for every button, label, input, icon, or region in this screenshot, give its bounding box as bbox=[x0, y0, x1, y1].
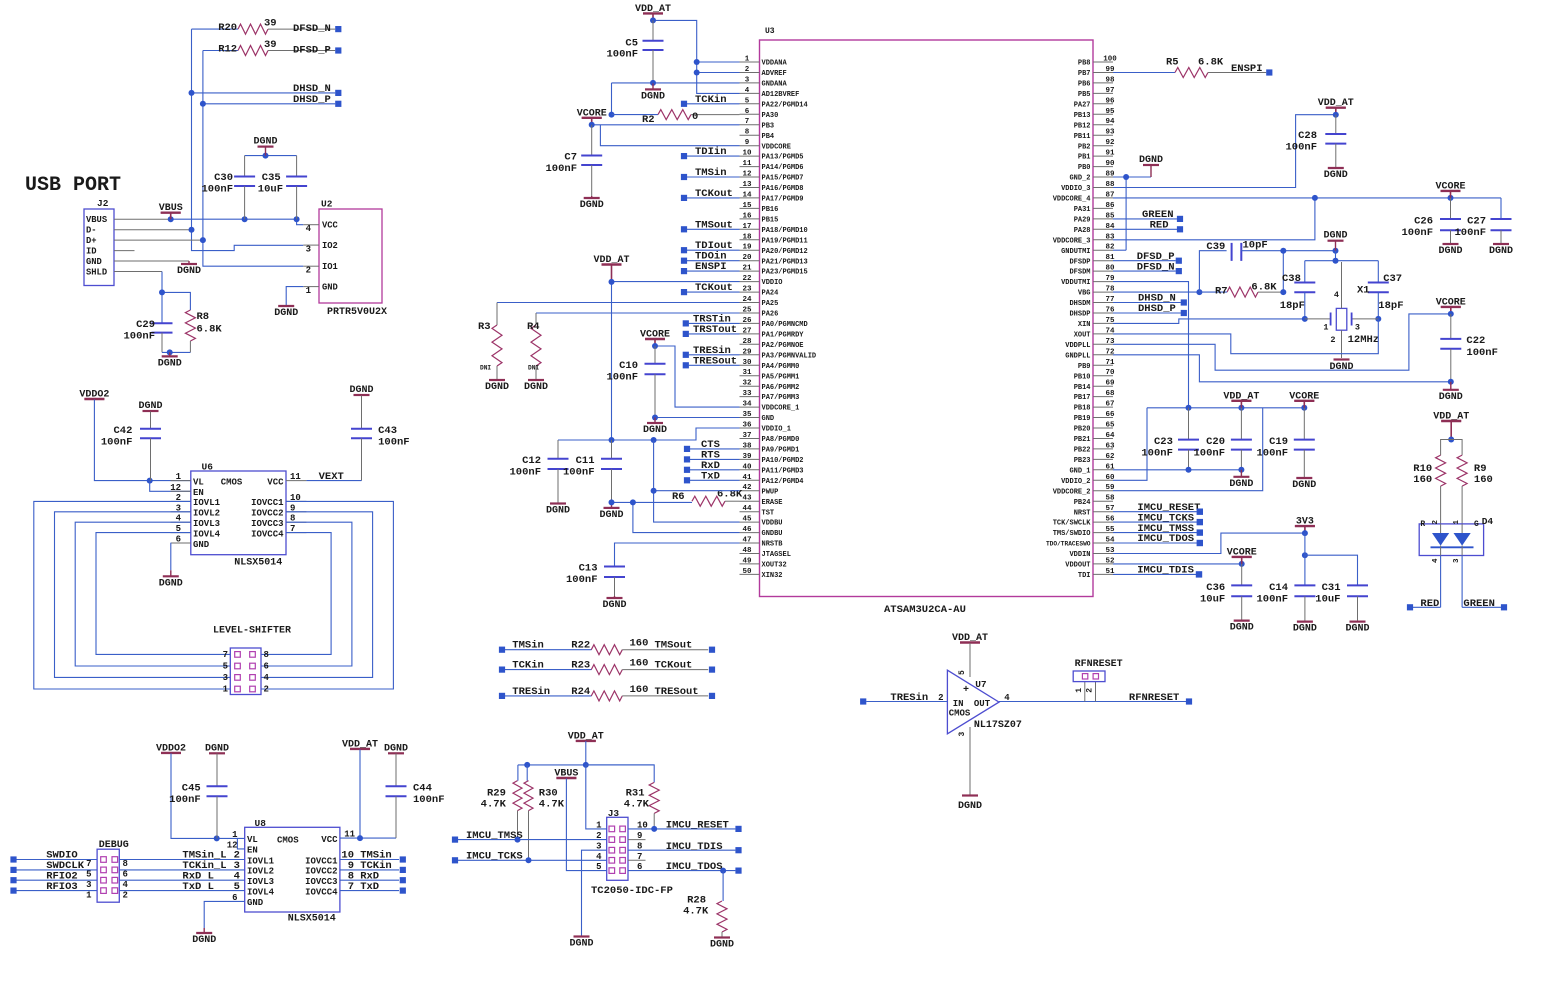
svg-text:TDIin: TDIin bbox=[695, 146, 727, 158]
svg-text:4: 4 bbox=[745, 87, 750, 95]
svg-text:PA11/PGMD3: PA11/PGMD3 bbox=[762, 467, 804, 475]
svg-text:25: 25 bbox=[742, 307, 752, 315]
svg-text:PB15: PB15 bbox=[762, 217, 779, 225]
svg-text:5: 5 bbox=[958, 670, 967, 675]
wire bbox=[612, 502, 740, 532]
svg-text:160: 160 bbox=[630, 658, 649, 670]
svg-text:41: 41 bbox=[742, 474, 752, 482]
svg-text:AD12BVREF: AD12BVREF bbox=[762, 91, 800, 99]
pin 12 PA15/PGMD7 bbox=[740, 171, 804, 183]
wire bbox=[114, 219, 303, 225]
wire bbox=[204, 901, 245, 928]
node TCKin bbox=[340, 860, 406, 873]
svg-text:DFSDP: DFSDP bbox=[1069, 258, 1090, 266]
svg-text:PB7: PB7 bbox=[1078, 70, 1091, 78]
svg-text:20: 20 bbox=[742, 254, 752, 262]
svg-text:VCORE: VCORE bbox=[1435, 181, 1465, 192]
svg-text:PA22/PGMD14: PA22/PGMD14 bbox=[762, 101, 808, 109]
ground DGND bbox=[546, 503, 570, 517]
pin 56 TCK/SWCLK bbox=[1053, 516, 1115, 528]
svg-text:PA5/PGMM1: PA5/PGMM1 bbox=[762, 373, 800, 381]
svg-text:PB16: PB16 bbox=[762, 206, 779, 214]
ground DGND bbox=[524, 379, 548, 393]
svg-text:100nF: 100nF bbox=[101, 437, 133, 449]
wire bbox=[1113, 355, 1451, 382]
svg-text:4.7K: 4.7K bbox=[539, 799, 565, 811]
wire bbox=[612, 82, 740, 84]
svg-text:3: 3 bbox=[596, 842, 601, 852]
pin 1 VDDANA bbox=[740, 56, 788, 68]
wire bbox=[566, 779, 606, 871]
pin 28 PA2/PGMNOE bbox=[740, 338, 804, 350]
svg-text:GND_1: GND_1 bbox=[1069, 467, 1090, 475]
svg-text:PB18: PB18 bbox=[1074, 405, 1091, 413]
ground DGND bbox=[1489, 243, 1513, 257]
svg-text:VDD_AT: VDD_AT bbox=[593, 255, 629, 266]
svg-text:48: 48 bbox=[742, 547, 752, 555]
svg-text:U7: U7 bbox=[975, 679, 987, 690]
svg-text:37: 37 bbox=[742, 432, 751, 440]
svg-text:DGND: DGND bbox=[1439, 392, 1463, 403]
ground DGND bbox=[641, 83, 665, 102]
svg-text:100nF: 100nF bbox=[563, 467, 595, 479]
capacitor C7 bbox=[545, 125, 602, 196]
svg-text:PA20/PGMD12: PA20/PGMD12 bbox=[762, 248, 808, 256]
svg-text:DGND: DGND bbox=[602, 600, 626, 611]
svg-text:64: 64 bbox=[1105, 432, 1115, 440]
power VDD_AT bbox=[568, 731, 604, 742]
ground DGND bbox=[1345, 621, 1369, 635]
svg-text:R2: R2 bbox=[642, 114, 655, 126]
pin 36 VDDIO_1 bbox=[740, 422, 791, 434]
crystal X1 12MHz bbox=[1305, 262, 1379, 358]
junction bbox=[1302, 530, 1308, 558]
junction bbox=[652, 415, 658, 421]
svg-text:VDDIO_1: VDDIO_1 bbox=[762, 426, 791, 434]
wire bbox=[518, 741, 654, 765]
svg-text:PA14/PGMD6: PA14/PGMD6 bbox=[762, 164, 804, 172]
ground DGND bbox=[159, 570, 183, 589]
svg-text:IMCU_TDIS: IMCU_TDIS bbox=[1137, 565, 1194, 577]
svg-text:IOVCC2: IOVCC2 bbox=[305, 867, 337, 877]
pin 10 PA13/PGMD5 bbox=[740, 150, 804, 162]
svg-text:VCC: VCC bbox=[321, 835, 338, 845]
junction bbox=[1280, 248, 1338, 295]
svg-text:VDDANA: VDDANA bbox=[762, 60, 788, 68]
wire bbox=[1113, 177, 1151, 250]
pin 59 VDDCORE_2 bbox=[1053, 484, 1115, 496]
junction bbox=[1448, 379, 1454, 385]
svg-text:5: 5 bbox=[234, 881, 240, 893]
ground DGND bbox=[1439, 382, 1463, 403]
svg-text:TST: TST bbox=[762, 509, 775, 517]
svg-text:93: 93 bbox=[1105, 129, 1115, 137]
svg-text:U8: U8 bbox=[255, 818, 267, 829]
svg-text:IMCU_TMSS: IMCU_TMSS bbox=[466, 830, 523, 842]
svg-text:PB24: PB24 bbox=[1074, 499, 1091, 507]
junction bbox=[357, 835, 363, 841]
label USB PORT bbox=[25, 174, 121, 197]
svg-text:VL: VL bbox=[247, 835, 258, 845]
pin 52 VDDOUT bbox=[1065, 557, 1115, 569]
ground DGND bbox=[1329, 360, 1353, 374]
svg-text:SHLD: SHLD bbox=[86, 268, 107, 278]
svg-text:100nF: 100nF bbox=[1454, 227, 1486, 239]
ground DGND bbox=[485, 379, 509, 393]
svg-text:38: 38 bbox=[742, 442, 752, 450]
svg-text:4.7K: 4.7K bbox=[481, 799, 507, 811]
svg-text:C22: C22 bbox=[1466, 335, 1485, 347]
pin 82 GNDUTMI bbox=[1061, 244, 1115, 256]
svg-text:96: 96 bbox=[1105, 97, 1115, 105]
wire bbox=[558, 428, 740, 440]
svg-text:PA24: PA24 bbox=[762, 290, 779, 298]
svg-text:PB21: PB21 bbox=[1074, 436, 1091, 444]
svg-text:11: 11 bbox=[290, 472, 301, 482]
svg-text:PA0/PGMNCMD: PA0/PGMNCMD bbox=[762, 321, 808, 329]
svg-text:PA4/PGMM0: PA4/PGMM0 bbox=[762, 363, 800, 371]
junction bbox=[1186, 467, 1245, 473]
svg-text:VCORE: VCORE bbox=[1289, 391, 1319, 402]
svg-text:68: 68 bbox=[1105, 390, 1115, 398]
svg-text:PB4: PB4 bbox=[762, 133, 775, 141]
svg-text:DGND: DGND bbox=[569, 939, 593, 950]
svg-text:DNI: DNI bbox=[480, 365, 491, 372]
pin 15 PB16 bbox=[740, 202, 779, 214]
svg-text:XOUT32: XOUT32 bbox=[762, 562, 787, 570]
svg-text:46: 46 bbox=[742, 526, 752, 534]
svg-text:VDD_AT: VDD_AT bbox=[568, 731, 604, 742]
svg-text:97: 97 bbox=[1105, 87, 1114, 95]
svg-text:IOVCC4: IOVCC4 bbox=[305, 887, 338, 897]
svg-text:DGND: DGND bbox=[1229, 479, 1253, 490]
svg-text:C37: C37 bbox=[1383, 273, 1402, 285]
svg-text:6: 6 bbox=[176, 535, 181, 545]
pin 89 GND_2 bbox=[1069, 171, 1115, 183]
svg-text:R12: R12 bbox=[218, 43, 237, 55]
pin 20 PA21/PGMD13 bbox=[740, 254, 808, 266]
svg-text:160: 160 bbox=[630, 684, 649, 696]
svg-text:PA15/PGMD7: PA15/PGMD7 bbox=[762, 175, 804, 183]
svg-text:TRSTout: TRSTout bbox=[693, 324, 737, 336]
svg-text:C30: C30 bbox=[214, 172, 233, 184]
svg-text:U6: U6 bbox=[202, 462, 214, 473]
svg-text:1: 1 bbox=[86, 890, 92, 900]
capacitor C19 bbox=[1256, 408, 1314, 477]
ground DGND bbox=[958, 796, 982, 813]
capacitor C11 bbox=[563, 440, 622, 508]
svg-text:J3: J3 bbox=[608, 808, 620, 819]
svg-text:4: 4 bbox=[264, 673, 270, 683]
wire bbox=[582, 850, 607, 935]
svg-text:D-: D- bbox=[86, 226, 97, 236]
svg-text:10uF: 10uF bbox=[1200, 594, 1225, 606]
svg-text:5: 5 bbox=[745, 97, 750, 105]
svg-text:100: 100 bbox=[1103, 56, 1117, 64]
svg-text:C35: C35 bbox=[262, 172, 281, 184]
pin 47 NRSTB bbox=[740, 537, 784, 549]
ground DGND bbox=[205, 743, 229, 754]
wire bbox=[114, 230, 303, 251]
svg-text:49: 49 bbox=[742, 557, 752, 565]
svg-text:RED: RED bbox=[1420, 598, 1439, 610]
svg-text:33: 33 bbox=[742, 390, 752, 398]
svg-text:VDDIN: VDDIN bbox=[1069, 551, 1090, 559]
svg-text:100nF: 100nF bbox=[566, 574, 598, 586]
label TxD_L bbox=[182, 881, 240, 893]
svg-text:100nF: 100nF bbox=[1285, 142, 1317, 154]
pin 19 PA20/PGMD12 bbox=[740, 244, 808, 256]
wire bbox=[611, 83, 613, 115]
pin 55 TMS/SWDIO bbox=[1053, 526, 1115, 538]
svg-text:3: 3 bbox=[745, 76, 750, 84]
connector LEVEL-SHIFTER bbox=[213, 626, 291, 695]
svg-text:IO1: IO1 bbox=[322, 262, 338, 272]
svg-text:17: 17 bbox=[742, 223, 751, 231]
pin 85 PA29 bbox=[1074, 212, 1115, 224]
svg-text:26: 26 bbox=[742, 317, 752, 325]
svg-text:8: 8 bbox=[264, 650, 269, 660]
svg-text:PB22: PB22 bbox=[1074, 447, 1091, 455]
svg-text:IOVL3: IOVL3 bbox=[193, 519, 220, 529]
node RED bbox=[1407, 598, 1441, 610]
svg-text:C7: C7 bbox=[564, 152, 577, 164]
junction bbox=[526, 857, 532, 863]
svg-text:100nF: 100nF bbox=[413, 794, 445, 806]
svg-text:EN: EN bbox=[247, 846, 258, 856]
pin 33 PA7/PGMM3 bbox=[740, 390, 800, 402]
svg-text:JTAGSEL: JTAGSEL bbox=[762, 551, 791, 559]
svg-text:6.8K: 6.8K bbox=[1251, 282, 1277, 294]
svg-text:VBUS: VBUS bbox=[554, 769, 578, 780]
wire bbox=[1113, 319, 1378, 354]
ground DGND bbox=[1323, 231, 1347, 251]
pin 8 PB4 bbox=[740, 129, 775, 141]
svg-text:45: 45 bbox=[742, 516, 752, 524]
svg-text:160: 160 bbox=[1413, 474, 1432, 486]
pin 42 PWUP bbox=[740, 484, 779, 496]
svg-text:IOVL2: IOVL2 bbox=[193, 509, 220, 519]
svg-text:39: 39 bbox=[742, 453, 752, 461]
resistor R31 bbox=[586, 765, 659, 829]
pin 18 PA19/PGMD11 bbox=[740, 233, 808, 245]
svg-text:IMCU_TDIS: IMCU_TDIS bbox=[666, 841, 723, 853]
junction bbox=[720, 868, 726, 874]
pin 23 PA24 bbox=[740, 286, 779, 298]
pin 54 TDO/TRACESWO bbox=[1046, 537, 1115, 548]
svg-text:CMOS: CMOS bbox=[221, 478, 243, 488]
svg-text:IOVL3: IOVL3 bbox=[247, 877, 274, 887]
svg-text:C29: C29 bbox=[136, 319, 155, 331]
node IMCU_TDOS bbox=[1113, 533, 1203, 546]
svg-text:IMCU_TCKS: IMCU_TCKS bbox=[466, 851, 523, 863]
svg-text:6.8K: 6.8K bbox=[1198, 57, 1224, 69]
wire bbox=[114, 272, 190, 324]
svg-text:VCORE: VCORE bbox=[1436, 297, 1466, 308]
svg-text:VDD_AT: VDD_AT bbox=[1433, 412, 1469, 423]
svg-text:DGND: DGND bbox=[1323, 231, 1347, 242]
wire bbox=[536, 312, 740, 314]
ground DGND bbox=[1229, 470, 1253, 490]
svg-text:R24: R24 bbox=[571, 686, 590, 698]
svg-text:66: 66 bbox=[1105, 411, 1115, 419]
svg-text:3V3: 3V3 bbox=[1296, 517, 1314, 528]
resistor R12 bbox=[218, 39, 335, 56]
svg-text:100nF: 100nF bbox=[606, 372, 638, 384]
svg-text:GND: GND bbox=[86, 257, 102, 267]
node TCKout bbox=[655, 660, 716, 673]
pin 99 PB7 bbox=[1078, 66, 1115, 78]
node SWDIO bbox=[10, 850, 244, 863]
node TMSout bbox=[681, 219, 740, 232]
svg-text:IOVCC2: IOVCC2 bbox=[251, 509, 283, 519]
pin 25 PA26 bbox=[740, 307, 779, 319]
svg-text:IOVL1: IOVL1 bbox=[247, 856, 275, 866]
svg-text:IOVCC3: IOVCC3 bbox=[251, 519, 283, 529]
wire bbox=[600, 125, 739, 146]
svg-text:PRTR5V0U2X: PRTR5V0U2X bbox=[327, 307, 387, 318]
svg-text:2: 2 bbox=[123, 890, 128, 900]
svg-text:C38: C38 bbox=[1282, 273, 1301, 285]
power VDD_AT bbox=[1433, 412, 1469, 440]
svg-text:VL: VL bbox=[193, 477, 204, 487]
svg-text:VCORE: VCORE bbox=[640, 330, 670, 341]
node DHSD_N bbox=[1113, 293, 1187, 306]
svg-text:DGND: DGND bbox=[1230, 623, 1254, 634]
svg-text:3: 3 bbox=[1355, 323, 1360, 333]
wire bbox=[286, 287, 303, 305]
svg-text:PB5: PB5 bbox=[1078, 91, 1091, 99]
svg-text:2: 2 bbox=[1432, 520, 1440, 525]
svg-text:DGND: DGND bbox=[580, 200, 604, 211]
svg-text:9: 9 bbox=[745, 139, 750, 147]
capacitor C35 bbox=[258, 156, 307, 220]
svg-text:D4: D4 bbox=[1482, 516, 1494, 527]
pin 72 GNDPLL bbox=[1065, 348, 1115, 360]
node TCKin bbox=[681, 94, 740, 107]
ground DGND bbox=[1324, 167, 1348, 181]
svg-text:39: 39 bbox=[264, 39, 277, 51]
svg-text:TMSin: TMSin bbox=[695, 167, 727, 179]
pin 78 VBG bbox=[1078, 286, 1115, 298]
svg-text:PA25: PA25 bbox=[762, 300, 779, 308]
svg-text:DGND: DGND bbox=[159, 578, 183, 589]
svg-text:VDD_AT: VDD_AT bbox=[635, 4, 671, 15]
svg-text:IOVL1: IOVL1 bbox=[193, 498, 221, 508]
svg-text:C26: C26 bbox=[1414, 216, 1433, 228]
svg-text:14: 14 bbox=[742, 191, 752, 199]
svg-text:C20: C20 bbox=[1206, 436, 1225, 448]
svg-text:DGND: DGND bbox=[205, 743, 229, 754]
junction bbox=[167, 349, 173, 355]
svg-text:+: + bbox=[963, 685, 969, 696]
svg-text:VBG: VBG bbox=[1078, 290, 1091, 298]
node RFIO2 bbox=[10, 870, 244, 883]
label TMSin_L bbox=[182, 850, 240, 862]
svg-text:C11: C11 bbox=[576, 455, 595, 467]
svg-text:TDO/TRACESWO: TDO/TRACESWO bbox=[1046, 541, 1091, 548]
node TDIin bbox=[681, 146, 740, 159]
wire bbox=[615, 543, 740, 567]
capacitor C23 bbox=[1141, 408, 1199, 470]
pin 98 PB6 bbox=[1078, 76, 1115, 88]
pin 94 PB12 bbox=[1074, 118, 1115, 130]
svg-text:12: 12 bbox=[742, 171, 752, 179]
pin 14 PA17/PGMD9 bbox=[740, 191, 804, 203]
pin 24 PA25 bbox=[740, 296, 779, 308]
pin 68 PB17 bbox=[1074, 390, 1115, 402]
svg-text:13: 13 bbox=[742, 181, 752, 189]
svg-text:C36: C36 bbox=[1206, 582, 1225, 594]
wire bbox=[1305, 251, 1379, 261]
capacitor C26 bbox=[1401, 198, 1461, 243]
svg-text:3: 3 bbox=[1453, 558, 1461, 563]
svg-text:160: 160 bbox=[630, 638, 649, 650]
svg-text:100nF: 100nF bbox=[169, 794, 201, 806]
node IMCU_TMSS bbox=[452, 830, 607, 843]
svg-text:IMCU_TDOS: IMCU_TDOS bbox=[666, 861, 723, 873]
svg-text:PA6/PGMM2: PA6/PGMM2 bbox=[762, 384, 800, 392]
pin 34 VDDCORE_1 bbox=[740, 401, 800, 413]
node TRESout bbox=[655, 686, 716, 699]
svg-text:GND: GND bbox=[193, 540, 210, 550]
svg-text:5: 5 bbox=[596, 862, 601, 872]
svg-text:GNDPLL: GNDPLL bbox=[1065, 352, 1090, 360]
svg-text:VDDIO: VDDIO bbox=[762, 279, 783, 287]
svg-text:DGND: DGND bbox=[158, 358, 182, 369]
junction bbox=[1186, 405, 1308, 411]
svg-text:DEBUG: DEBUG bbox=[99, 840, 129, 851]
power VBUS bbox=[554, 769, 578, 780]
svg-text:GND: GND bbox=[762, 415, 775, 423]
resistor R24 bbox=[505, 684, 708, 701]
pin 96 PA27 bbox=[1074, 97, 1115, 109]
junction bbox=[1448, 311, 1454, 317]
svg-text:2: 2 bbox=[745, 66, 750, 74]
junction bbox=[1239, 561, 1245, 567]
svg-text:PA2/PGMNOE: PA2/PGMNOE bbox=[762, 342, 804, 350]
svg-text:XOUT: XOUT bbox=[1074, 332, 1091, 340]
power VDDO2 bbox=[156, 743, 186, 754]
wire bbox=[628, 840, 646, 861]
svg-text:PB12: PB12 bbox=[1074, 122, 1091, 130]
svg-text:100nF: 100nF bbox=[509, 467, 541, 479]
svg-text:3: 3 bbox=[86, 880, 91, 890]
svg-text:VDDCORE_2: VDDCORE_2 bbox=[1053, 488, 1091, 496]
junction bbox=[652, 343, 658, 349]
svg-text:PA27: PA27 bbox=[1074, 101, 1091, 109]
wire bbox=[1199, 251, 1226, 292]
node GREEN bbox=[1462, 598, 1507, 610]
svg-text:98: 98 bbox=[1105, 76, 1115, 84]
pin 84 PA28 bbox=[1074, 223, 1115, 235]
ground DGND bbox=[349, 385, 373, 396]
svg-text:C45: C45 bbox=[182, 783, 201, 795]
capacitor C43 bbox=[351, 396, 410, 481]
capacitor C30 bbox=[201, 156, 255, 220]
svg-text:DFSD_N: DFSD_N bbox=[1137, 261, 1175, 273]
connector RFNRESET jumper bbox=[1073, 659, 1122, 702]
power VDD_AT bbox=[593, 255, 629, 282]
pin 39 PA10/PGMD2 bbox=[740, 453, 804, 465]
wire bbox=[1113, 198, 1501, 219]
wire bbox=[162, 351, 190, 353]
node ENSPI bbox=[1231, 63, 1272, 76]
svg-text:VDD_AT: VDD_AT bbox=[1223, 391, 1259, 402]
svg-text:DFSD_N: DFSD_N bbox=[293, 23, 331, 35]
pin 70 PB10 bbox=[1074, 369, 1115, 381]
svg-text:DGND: DGND bbox=[641, 91, 665, 102]
